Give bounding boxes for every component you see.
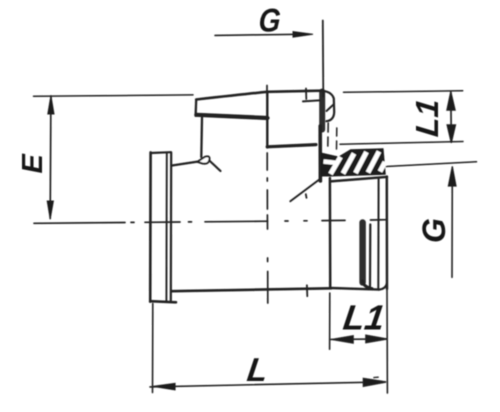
right flange: inner/left edge <box>329 178 332 288</box>
vertical centerline <box>266 86 269 304</box>
tee body: fillet lens at neck/body <box>197 156 209 163</box>
right flange: bottom right corner curve <box>379 284 387 290</box>
tee body: cap inner chamfer fragment <box>303 100 320 101</box>
svg-text:L1: L1 <box>341 299 387 338</box>
stray pen mark above L line <box>374 376 378 378</box>
dimension L: left extension line <box>152 304 154 393</box>
dimension L1 upper right: arrowhead down <box>447 125 455 143</box>
dimension L: dimension line <box>150 382 386 387</box>
tee body: branch neck left edge <box>200 118 203 158</box>
dimension G top: arrowhead <box>293 32 313 38</box>
dimension G right: leader line <box>451 167 453 277</box>
threaded boss: dark body <box>321 148 386 176</box>
dimension E: top extension line <box>34 95 194 96</box>
dimension E: arrowhead down <box>47 201 53 219</box>
svg-text:L1: L1 <box>409 97 445 138</box>
branch right wall bar down to boss <box>318 126 322 181</box>
tee body: hidden thread line in branch <box>327 123 329 148</box>
right port: thread slot (dark) <box>359 223 366 283</box>
tee body: cap top edge <box>196 91 320 100</box>
dimension E: arrowhead up <box>48 96 54 115</box>
right flange: inner chamfer line <box>377 178 379 289</box>
dimension G top: extension line <box>322 21 325 97</box>
tee body: cap right outer corner <box>320 91 334 122</box>
right port: inner bore line <box>369 225 371 287</box>
tee body: branch thread end step <box>267 145 316 147</box>
threaded boss: white thread slashes <box>331 152 386 175</box>
right flange: top edge <box>331 177 388 182</box>
dimension G right: arrowhead up <box>448 167 456 187</box>
tick crossing cap top edge <box>305 89 307 100</box>
dimension L1 lower: dimension line <box>331 338 387 341</box>
dimension L: arrowhead left <box>154 383 176 389</box>
tee body: fillet tail line <box>209 161 220 172</box>
svg-text:G: G <box>257 2 281 39</box>
dimension G top: dimension line <box>215 34 308 35</box>
right flange: bottom edge <box>331 288 379 290</box>
tee body: cap corner zigzag <box>327 105 334 112</box>
tee body: branch bore edge at centerline <box>266 92 268 148</box>
tick crossing bottom edge <box>306 285 308 296</box>
body bottom edge <box>172 288 332 291</box>
tee body: cap left edge <box>194 100 197 116</box>
left flange: bottom edge <box>150 301 176 302</box>
dimension L1 upper right: extension line from boss top <box>340 142 463 145</box>
left flange: top edge <box>151 151 171 154</box>
tee body: counterbore notch (dark bar) <box>319 92 325 130</box>
dimension L1 upper right: extension line from cap top <box>344 91 463 93</box>
threaded boss: white layer sliver <box>324 162 338 164</box>
left flange: left edge <box>149 152 152 301</box>
dimension G right: extension line from flange top <box>386 162 477 167</box>
tee body: cap bottom edge (thick) <box>196 115 267 118</box>
horizontal centerline <box>34 220 387 224</box>
left flange: right edge <box>170 152 173 300</box>
dimension L: right extension line (shared with L1) <box>386 289 388 393</box>
dimension E: dimension line <box>49 96 52 219</box>
tee body: hidden outer line below cap <box>336 128 338 149</box>
dimension L: arrowhead right <box>364 379 386 387</box>
dimension L1 lower: arrowhead right <box>366 335 387 342</box>
dimension L1 upper right: arrowhead up <box>447 92 455 110</box>
section break diagonal <box>290 163 326 202</box>
dimension L1 lower: arrowhead left <box>333 336 353 343</box>
svg-text:E: E <box>17 153 49 174</box>
right flange: outer right edge <box>386 177 389 290</box>
small interior tick <box>305 194 308 198</box>
dimension L1 upper right: dimension line <box>450 92 453 142</box>
tee body: top edge left of branch <box>171 162 197 166</box>
svg-text:L: L <box>245 352 270 389</box>
svg-text:G: G <box>416 218 452 243</box>
right port: thread slot bottom curve <box>363 281 372 289</box>
dimension L1 lower: left extension line <box>329 293 331 349</box>
left flange: inner chamfer line <box>165 153 167 301</box>
